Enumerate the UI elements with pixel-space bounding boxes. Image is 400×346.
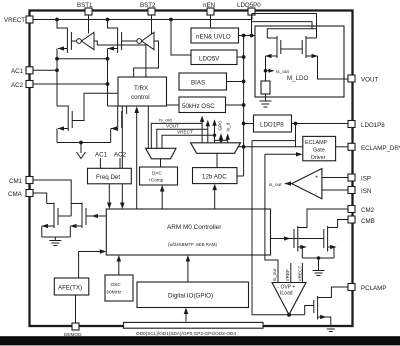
wire CMA <box>33 193 47 204</box>
block ECLAMP Gate Driver <box>303 136 336 160</box>
svg-text:Is_out: Is_out <box>276 69 289 74</box>
svg-text:VRECT: VRECT <box>4 17 25 24</box>
wire adc mux arrow 4 <box>219 133 223 143</box>
svg-text:BIAS: BIAS <box>191 80 205 87</box>
svg-text:nEN: nEN <box>203 2 215 9</box>
svg-text:+: + <box>315 175 318 181</box>
svg-text:VRECT: VRECT <box>177 130 193 135</box>
node rail-inv2 <box>169 18 173 22</box>
svg-text:Is_out: Is_out <box>272 268 277 281</box>
wire Q5-Q6 gate link <box>281 48 302 50</box>
wire ovp output rail <box>252 314 305 316</box>
wire ISP to U2 <box>322 177 348 179</box>
svg-text:CMB: CMB <box>361 218 375 225</box>
pin BST2 <box>140 2 156 15</box>
node VRECT OVP input <box>298 263 303 283</box>
wire eclamp trigger (arrow) <box>265 152 303 156</box>
svg-text:DEMOD: DEMOD <box>64 332 82 337</box>
wire Q6 source to VOUT <box>318 56 349 79</box>
node bus-uvlo <box>242 34 246 38</box>
chip outer border <box>30 11 353 327</box>
wire nEN&UVLO to M_LDO <box>239 35 256 37</box>
wire Q7 gate to CM1 leg <box>58 215 71 217</box>
node VRECT net <box>162 130 215 149</box>
svg-text:nEN& UVLO: nEN& UVLO <box>196 34 231 41</box>
svg-text:ISP: ISP <box>361 176 371 183</box>
svg-text:CM1: CM1 <box>9 178 23 185</box>
svg-text:Digital IO(GPIO): Digital IO(GPIO) <box>168 293 213 300</box>
wire bus A <box>243 36 245 177</box>
svg-text:Gate: Gate <box>313 148 325 154</box>
wire U1b input from T/RX <box>134 41 159 77</box>
svg-text:T/RX: T/RX <box>134 85 148 92</box>
svg-text:GP0: GP0 <box>218 121 223 131</box>
transistor Q5 (M_LDO sense FET) <box>265 36 281 58</box>
wire bus to LDO1P8 <box>244 123 254 125</box>
transistor Q1 (high-side FET AC1) <box>57 20 71 54</box>
svg-text:Freq Det: Freq Det <box>96 174 120 181</box>
wire T/RX to ARM (with up arrow) <box>134 106 139 209</box>
node VOUT net <box>157 124 208 149</box>
svg-text:OD0(SCL)/OD1(SDA)/GP0,GP2-GP4/: OD0(SCL)/OD1(SDA)/GP0,GP2-GP4/OD2-OD4 <box>136 331 236 336</box>
svg-text:PCLAMP: PCLAMP <box>361 285 386 292</box>
pin AC2 <box>11 81 33 90</box>
transistor Q8 (CM1 modulation FET) <box>70 203 86 238</box>
block M_LDO pass FET stage <box>255 26 344 97</box>
wire BST2 stub <box>151 15 153 34</box>
wire LDO5P0 feed upper <box>252 14 317 39</box>
svg-text:BST1: BST1 <box>77 2 93 9</box>
node VREF OVP input <box>285 263 291 283</box>
wire BST1 stub <box>88 15 90 34</box>
svg-text:12b ADC: 12b ADC <box>202 174 227 181</box>
block 12b ADC <box>193 168 238 184</box>
svg-text:50kHz OSC: 50kHz OSC <box>182 103 215 110</box>
wire ovp riser A <box>251 141 253 315</box>
transistor Q9 (CM2 clamp FET) <box>294 209 348 258</box>
pin LDO5P0 <box>237 2 261 15</box>
node U3 output <box>287 313 291 317</box>
node rail-leg1 <box>55 18 59 22</box>
svg-text:60MHz: 60MHz <box>107 290 123 295</box>
node AC2 label <box>114 152 127 169</box>
transistor Q3 (low-side FET AC1) <box>57 106 72 143</box>
wire LDO5P0 feed lower <box>252 22 313 29</box>
block nEN & UVLO <box>191 28 239 43</box>
block DAC + Comp <box>140 167 178 185</box>
wire ARM to DAC (up arrow) <box>160 185 165 209</box>
wire adc mux arrow 3 <box>212 119 216 143</box>
svg-text:LDO1P8: LDO1P8 <box>361 122 385 129</box>
wire nEN stub <box>210 15 212 28</box>
svg-text:VOUT: VOUT <box>166 124 179 129</box>
transistor Q10 (CMB clamp FET) <box>324 220 348 259</box>
wire FreqDet to ARM (down arrow) <box>107 184 112 209</box>
pin BST1 <box>77 2 93 15</box>
transistor Q7 (CMA modulation FET) <box>42 203 59 238</box>
wire Q4 gate stub from T/RX <box>126 106 128 114</box>
wire mux1 to DAC <box>160 159 162 167</box>
block LDO5V <box>191 50 237 65</box>
node bus-LDO1P8 <box>242 122 246 126</box>
pin VOUT <box>348 75 378 84</box>
wire AFE to DEMOD <box>75 295 77 323</box>
block ARM M0 Controller <box>106 209 270 255</box>
ground (clamp) <box>313 258 325 276</box>
ground arrow (rectifier) <box>77 143 86 159</box>
op-amp/inverter U1a (Q1 gate driver) <box>71 32 94 49</box>
wire mux2 to ADC <box>216 153 218 167</box>
ground (CM modulation) <box>49 237 61 246</box>
wire Q3 gate from T/RX <box>72 93 118 120</box>
pin ECLAMP_DRV <box>348 143 400 152</box>
wire ADC out to bus <box>237 175 244 177</box>
wire eclamp enable upper <box>252 140 296 142</box>
wire BIAS to bus <box>227 80 246 84</box>
svg-text:CMA: CMA <box>8 191 23 198</box>
node AC1 label <box>95 152 108 169</box>
node is_out output <box>269 181 292 187</box>
node GP0 label <box>218 121 223 131</box>
node Is_d label <box>226 122 231 131</box>
wire AC1 <box>33 69 57 71</box>
block BIAS <box>179 73 227 90</box>
wire source cross-link <box>57 57 109 61</box>
wire OSC to ARM (up arrow) <box>117 255 122 275</box>
wire GPIO to ARM (up arrow) <box>186 255 191 282</box>
wire adc mux row <box>215 139 228 141</box>
transistor Q2 (high-side FET AC2) <box>108 20 122 54</box>
wire 50kHz OSC to bus <box>226 103 246 107</box>
svg-text:ECLAMP: ECLAMP <box>305 140 328 146</box>
wire LDO1P8 to pin <box>292 122 349 126</box>
wire U1a input from T/RX <box>94 41 146 77</box>
wire OD bar to GPIO (up arrow) <box>184 308 189 322</box>
svg-text:M_LDO: M_LDO <box>287 75 309 82</box>
block 50kHz OSC <box>179 97 226 113</box>
node Is_out net <box>151 118 202 149</box>
bottom black bar <box>0 336 400 345</box>
svg-text:is_out: is_out <box>269 182 282 187</box>
node rail-leg2 <box>106 18 110 22</box>
wire ovp riser B <box>265 154 278 263</box>
svg-text:Is_out: Is_out <box>159 118 172 123</box>
pin LDO1P8 <box>348 121 385 130</box>
svg-text:ISN: ISN <box>361 188 371 195</box>
svg-text:VREF: VREF <box>285 269 290 282</box>
pin AC1 <box>11 67 33 75</box>
svg-text:AC1: AC1 <box>11 68 24 75</box>
wire AFE to ARM (right arrow) <box>79 249 107 278</box>
wire LDO5V to bus <box>237 55 246 59</box>
ground (M_LDO) <box>260 101 272 107</box>
wire ECLAMP to pin <box>336 146 348 148</box>
node bus-eclamp row <box>242 145 246 149</box>
svg-text:+Comp: +Comp <box>148 178 164 183</box>
wire eclamp row <box>238 146 303 148</box>
wire VRECT rail <box>33 19 252 21</box>
wire LDO1P8 branch down <box>295 124 297 147</box>
op-amp U2 (current sense comparator) <box>292 169 322 199</box>
wire low-side source rail <box>57 141 111 145</box>
wire LDO5P0 drop <box>250 15 254 37</box>
svg-text:AFE(TX): AFE(TX) <box>58 285 82 292</box>
svg-text:AC2: AC2 <box>114 152 127 159</box>
svg-text:VOUT: VOUT <box>361 77 378 84</box>
wire clamp source rail <box>302 256 334 260</box>
wire CM1 <box>33 180 71 216</box>
node leg1-58 <box>55 57 59 61</box>
block AFE(TX) <box>54 278 89 295</box>
svg-text:Driver: Driver <box>311 155 326 161</box>
svg-text:Is_d: Is_d <box>226 122 231 131</box>
block Digital IO(GPIO) <box>137 282 249 308</box>
wire adc mux arrow 1 <box>200 116 204 143</box>
pin PCLAMP <box>348 284 386 293</box>
block OSC 60MHz <box>105 275 133 301</box>
ground (PCLAMP) <box>325 327 337 332</box>
pin CM1 <box>9 177 33 186</box>
pin ISP <box>348 174 371 183</box>
pin CMB <box>348 216 375 225</box>
transistor Q6 (M_LDO pass FET) <box>302 36 318 58</box>
svg-text:ILoad: ILoad <box>280 291 293 297</box>
wire AC2 <box>33 83 108 85</box>
pin bar OD0-OD4 <box>124 322 264 336</box>
wire M_LDO top rail <box>267 29 316 38</box>
wire T/RX to ARM down line <box>120 106 125 209</box>
op-amp/inverter U1b (Q2 gate driver) <box>122 32 154 49</box>
svg-text:LDO5V: LDO5V <box>199 56 220 63</box>
svg-text:ECLAMP_DRV: ECLAMP_DRV <box>361 145 400 152</box>
wire adc mux arrow 5 <box>226 133 230 143</box>
block Freq Det <box>88 168 132 184</box>
wire T/RX to mux1 <box>147 106 149 148</box>
wire Q7 Q8 source rail <box>42 236 71 238</box>
mux M1 (DAC input mux) <box>146 148 177 159</box>
wire ISN to U2 <box>322 189 348 191</box>
svg-text:DAC: DAC <box>152 171 163 176</box>
svg-text:LDO5P0: LDO5P0 <box>237 2 261 9</box>
svg-text:control: control <box>131 94 150 101</box>
wire T/RX to 50kHz OSC <box>167 104 180 106</box>
svg-text:AC1: AC1 <box>95 152 108 159</box>
wire leg2 source to AC2 <box>107 49 109 107</box>
wire adc mux arrow 2 <box>206 120 210 143</box>
wire R1 to ground <box>265 94 267 101</box>
resistor R1 (sense) <box>261 81 270 94</box>
svg-text:ARM M0 Controller: ARM M0 Controller <box>167 224 222 231</box>
svg-text:VRECT: VRECT <box>298 265 303 281</box>
pin ISN <box>348 187 371 196</box>
svg-text:CM2: CM2 <box>361 207 375 214</box>
wire leg1 source to AC1 <box>56 49 58 107</box>
node Is_out OVP input <box>272 263 278 283</box>
pin CM2 <box>348 206 375 215</box>
op-amp U3 (OVP / ILoad comparator) <box>272 283 306 315</box>
wire rail to LDO5V <box>171 20 191 56</box>
mux M2 (ADC input mux) <box>191 143 241 154</box>
svg-text:AC2: AC2 <box>11 82 24 89</box>
svg-text:LDO1P8: LDO1P8 <box>260 122 284 129</box>
node leg2-AC2 <box>106 82 110 86</box>
wire Q5 source to resistor <box>265 56 267 81</box>
pin VRECT <box>4 16 33 24</box>
svg-text:OSC: OSC <box>111 282 122 287</box>
pin CMA <box>8 190 33 199</box>
wire Q8 gate from ARM (left arrow) <box>86 214 106 218</box>
block T/RX control <box>118 77 167 106</box>
wire ARM to ADC (up arrow) <box>212 184 217 209</box>
wire ARM to clamp gates (left arrow) <box>271 236 324 240</box>
svg-text:BST2: BST2 <box>140 2 156 9</box>
node Is_out tap <box>264 69 290 74</box>
wire Q11 gate from OVP rail <box>305 306 314 315</box>
transistor Q4 (low-side FET AC2 / TX switch) <box>108 106 122 143</box>
pin DEMOD <box>64 323 82 337</box>
svg-text:(w/24KBMTP ,8KB RAM): (w/24KBMTP ,8KB RAM) <box>168 242 217 247</box>
node leg1-AC1 <box>55 68 59 72</box>
transistor Q11 (PCLAMP FET) <box>314 287 348 326</box>
pin nEN <box>203 2 215 15</box>
block LDO1P8 <box>254 115 292 132</box>
